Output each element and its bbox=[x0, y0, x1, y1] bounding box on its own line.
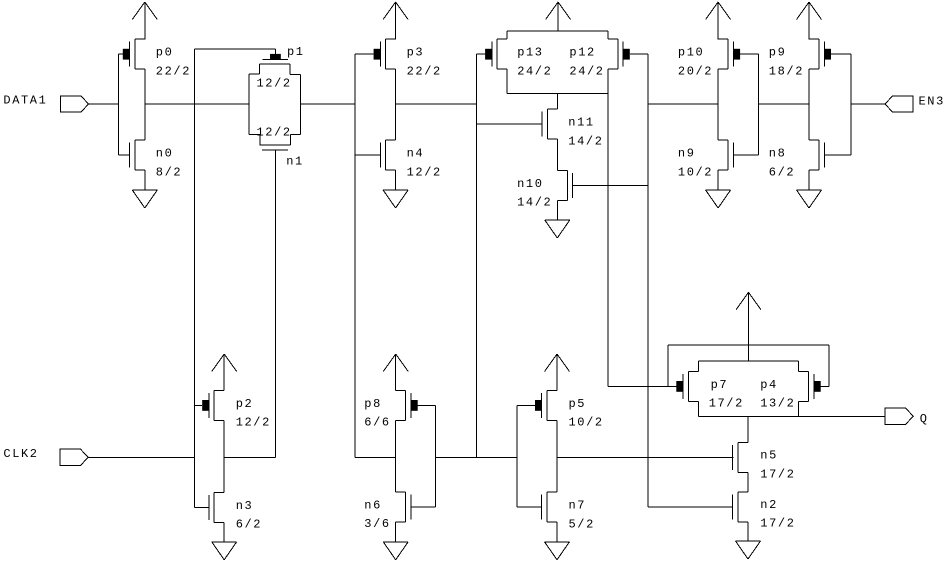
svg-text:p2: p2 bbox=[236, 397, 254, 411]
transistor p4 (PMOS 13/2, mirrored) bbox=[760, 371, 821, 410]
port EN3 (input) bbox=[885, 95, 945, 113]
svg-text:n3: n3 bbox=[236, 499, 254, 513]
svg-text:10/2: 10/2 bbox=[678, 165, 713, 179]
node enable bus vertical (p12/n10/n2 gates) bbox=[647, 54, 649, 507]
svg-text:p5: p5 bbox=[569, 397, 587, 411]
wire p4 gate lead to outer loop bbox=[821, 385, 829, 387]
svg-text:p12: p12 bbox=[569, 46, 595, 60]
svg-text:5/2: 5/2 bbox=[569, 517, 595, 531]
wire latch node row to p8/n6 output rail bbox=[355, 456, 396, 458]
wire p2 drain to n3 drain bbox=[223, 420, 225, 492]
transistor n10 (NMOS 14/2, mirrored) bbox=[517, 170, 573, 209]
node gate bus of p9/n8 bbox=[850, 54, 852, 155]
wire n7 source to ground bbox=[556, 522, 558, 542]
wire p10 drain to n9 drain bbox=[717, 69, 719, 140]
transistor p9 (PMOS 18/2, mirrored) bbox=[769, 39, 831, 78]
transistor n2 (NMOS 17/2) bbox=[733, 492, 796, 531]
svg-text:n8: n8 bbox=[769, 147, 787, 161]
power VDD arrow above p0 bbox=[132, 2, 157, 39]
ground below n10 bbox=[545, 220, 570, 238]
wire n11 source to n10 drain bbox=[556, 139, 558, 170]
power VDD arrow above p9 bbox=[797, 2, 822, 39]
transistor n0 (NMOS 8/2) bbox=[130, 140, 183, 179]
svg-text:24/2: 24/2 bbox=[569, 64, 604, 78]
wire p7/p4 common drain rail (bottom, node Q) bbox=[698, 416, 798, 418]
wire n5 source to n2 drain bbox=[747, 472, 749, 492]
transistor p7 (PMOS 17/2) bbox=[676, 371, 744, 410]
svg-text:p13: p13 bbox=[517, 46, 543, 60]
wire n1 gate bus down to clk-bar row bbox=[275, 150, 277, 457]
transistor p10 (PMOS 20/2, mirrored) bbox=[678, 39, 740, 78]
wire p0/n0 output to transmission gate left node bbox=[145, 103, 249, 105]
wire EN3 port to p9/n8 gate bus bbox=[851, 103, 885, 105]
transistor n5 (NMOS 17/2) bbox=[733, 442, 796, 481]
wire p5/n7 output to n5 gate bbox=[557, 456, 733, 458]
svg-text:12/2: 12/2 bbox=[257, 126, 292, 140]
svg-text:20/2: 20/2 bbox=[678, 64, 713, 78]
wire p13 stubs to rails bbox=[506, 31, 508, 94]
svg-text:p9: p9 bbox=[769, 46, 787, 60]
wire n4 gate lead bbox=[355, 154, 380, 156]
wire p10/n9 gate bus to p9/n8 output rail bbox=[758, 103, 809, 105]
wire n11 gate lead bbox=[477, 123, 542, 125]
svg-text:p4: p4 bbox=[760, 378, 778, 392]
svg-text:14/2: 14/2 bbox=[568, 134, 603, 148]
wire p1 gate lead (CLK bus to p1) bbox=[195, 48, 276, 50]
power VDD arrow above p13/p12 bbox=[546, 2, 571, 31]
power VDD arrow above p2 bbox=[212, 354, 237, 390]
transistor n3 (NMOS 6/2) bbox=[209, 492, 262, 531]
wire p9 drain to n8 drain bbox=[808, 69, 810, 140]
wire p2/n3 output (clk-bar) to n1 gate bus bbox=[224, 456, 276, 458]
wire p13/p12 common drain rail (bottom) bbox=[507, 93, 608, 95]
svg-text:17/2: 17/2 bbox=[760, 467, 795, 481]
svg-text:n11: n11 bbox=[568, 116, 594, 130]
wire p13/p12 common source rail (top) bbox=[507, 30, 608, 32]
node CLK bus vertical bbox=[194, 49, 196, 507]
wire p7 stubs to rails bbox=[697, 361, 699, 416]
ground below n9 bbox=[706, 190, 731, 208]
wire transmission gate output to p3/n4 gate bus bbox=[300, 103, 355, 105]
transistor p12 (PMOS 24/2) bbox=[569, 39, 629, 78]
wire n0 source to ground bbox=[144, 170, 146, 190]
svg-text:6/6: 6/6 bbox=[364, 416, 390, 430]
wire n3 gate lead bbox=[195, 506, 209, 508]
wire n2 source to ground bbox=[747, 522, 749, 541]
wire p8 drain to n6 drain bbox=[395, 420, 397, 492]
svg-text:12/2: 12/2 bbox=[257, 77, 292, 91]
transistor p13 (PMOS 24/2) bbox=[485, 39, 552, 78]
wire p13 gate lead bbox=[477, 53, 485, 55]
wire Q node to port Q bbox=[799, 416, 885, 418]
node transmission gate left rail bbox=[248, 74, 250, 134]
transistor n4 (NMOS 12/2) bbox=[380, 140, 442, 179]
ground below n6 bbox=[383, 542, 408, 560]
wire n10 source to ground bbox=[556, 200, 558, 220]
transistor p3 (PMOS 22/2) bbox=[374, 39, 442, 78]
power VDD arrow above p7/p4 bbox=[736, 292, 761, 361]
wire p12 gate lead to enable bus bbox=[630, 53, 648, 55]
transistor n9 (NMOS 10/2, mirrored) bbox=[678, 140, 734, 179]
svg-text:n2: n2 bbox=[760, 498, 778, 512]
svg-text:n1: n1 bbox=[286, 155, 304, 169]
wire n4 source to ground bbox=[395, 170, 397, 190]
svg-text:14/2: 14/2 bbox=[517, 196, 552, 210]
svg-text:n10: n10 bbox=[517, 177, 543, 191]
svg-text:3/6: 3/6 bbox=[364, 517, 390, 531]
wire p9 gate lead bbox=[831, 53, 851, 55]
svg-text:p0: p0 bbox=[156, 46, 174, 60]
svg-text:22/2: 22/2 bbox=[407, 64, 442, 78]
wire n9 gate lead bbox=[733, 154, 758, 156]
ground below n2 bbox=[736, 541, 761, 559]
wire p3 drain to n4 drain bbox=[395, 69, 397, 140]
svg-text:p1: p1 bbox=[287, 45, 305, 59]
svg-text:p3: p3 bbox=[407, 46, 425, 60]
svg-text:n4: n4 bbox=[407, 147, 425, 161]
node gate bus of p8/n6 bbox=[435, 405, 437, 507]
power VDD arrow above p8 bbox=[383, 354, 408, 390]
svg-text:8/2: 8/2 bbox=[156, 165, 182, 179]
wire p8/n6 gate bus row to p5/n7 gate bus bbox=[436, 456, 517, 458]
svg-text:p10: p10 bbox=[678, 46, 704, 60]
wire p12 bottom stub / output rail down to p7-p4 gates bbox=[607, 69, 609, 386]
transistor p1 (PMOS pass 12/2, horizontal) bbox=[249, 45, 305, 90]
wire p0 drain to n0 drain (output node) bbox=[144, 69, 146, 140]
port DATA1 (input) bbox=[3, 94, 88, 113]
ground below n0 bbox=[132, 190, 157, 208]
wire outer gate loop (p7-p4 gates tied) bbox=[668, 345, 829, 386]
wire p3/n4 output to p13/n11 gate bus bbox=[396, 103, 477, 105]
wire n3 source to ground bbox=[223, 522, 225, 541]
node transmission gate right rail bbox=[299, 74, 301, 134]
transistor n7 (NMOS 5/2) bbox=[542, 492, 595, 531]
wire p12 top stub to rail bbox=[607, 31, 609, 39]
transistor n11 (NMOS 14/2) bbox=[542, 109, 604, 148]
svg-text:n9: n9 bbox=[678, 147, 696, 161]
svg-text:10/2: 10/2 bbox=[569, 416, 604, 430]
wire DATA1 to inverter p0/n0 gate bus bbox=[89, 103, 119, 105]
wire n0 gate lead bbox=[118, 154, 129, 156]
svg-text:CLK2: CLK2 bbox=[3, 447, 38, 461]
svg-text:12/2: 12/2 bbox=[236, 416, 271, 430]
transistor p0 (PMOS 22/2) bbox=[123, 39, 191, 78]
wire p3 gate lead bbox=[355, 53, 373, 55]
svg-text:18/2: 18/2 bbox=[769, 64, 804, 78]
wire n10 gate lead to enable bus bbox=[573, 184, 648, 186]
svg-text:24/2: 24/2 bbox=[517, 64, 552, 78]
power VDD arrow above p3 bbox=[383, 2, 408, 39]
power VDD arrow above p10 bbox=[706, 2, 731, 39]
transistor n1 (NMOS pass 12/2, horizontal) bbox=[249, 126, 304, 169]
wire p5 drain to n7 drain bbox=[556, 420, 558, 492]
wire p5 gate lead bbox=[517, 404, 535, 406]
transistor p2 (PMOS 12/2) bbox=[202, 390, 271, 429]
wire p2 gate lead bbox=[195, 404, 203, 406]
wire n6 gate lead bbox=[411, 506, 436, 508]
wire drain of n11 from p13/p12 drain rail bbox=[556, 94, 558, 110]
wire n6 source to ground bbox=[395, 522, 397, 542]
ground below n7 bbox=[545, 542, 570, 560]
wire p0 gate lead bbox=[118, 53, 123, 55]
transistor p8 (PMOS 6/6, mirrored) bbox=[364, 390, 417, 429]
transistor n6 (NMOS 3/6, mirrored) bbox=[364, 492, 411, 531]
svg-text:EN3: EN3 bbox=[919, 95, 945, 109]
port CLK2 (input) bbox=[3, 447, 88, 466]
wire enable bus to p10/n9 output rail bbox=[648, 103, 718, 105]
wire CLK2 to clk bus bbox=[88, 456, 195, 458]
svg-text:DATA1: DATA1 bbox=[3, 94, 47, 108]
svg-text:Q: Q bbox=[920, 412, 929, 426]
svg-text:6/2: 6/2 bbox=[236, 518, 262, 532]
svg-text:6/2: 6/2 bbox=[769, 165, 795, 179]
wire p12 output rail to p7 gate bbox=[608, 385, 677, 387]
port Q (output) bbox=[885, 408, 929, 426]
node gate bus of p5/n7 bbox=[516, 405, 518, 507]
node gate bus of p0/n0 bbox=[117, 54, 119, 155]
svg-text:17/2: 17/2 bbox=[709, 397, 744, 411]
transistor n8 (NMOS 6/2, mirrored) bbox=[769, 140, 825, 179]
ground below n3 bbox=[212, 542, 237, 560]
svg-text:17/2: 17/2 bbox=[760, 517, 795, 531]
wire p4 stubs to rails bbox=[798, 361, 800, 416]
node gate bus of p10/n9 bbox=[757, 54, 759, 155]
svg-text:13/2: 13/2 bbox=[760, 397, 795, 411]
node gate bus p13/n11/p8/p5 vertical bbox=[476, 54, 478, 457]
svg-text:12/2: 12/2 bbox=[407, 165, 442, 179]
svg-text:p8: p8 bbox=[364, 397, 382, 411]
svg-text:22/2: 22/2 bbox=[156, 64, 191, 78]
power VDD arrow above p5 bbox=[545, 354, 570, 390]
svg-text:n7: n7 bbox=[569, 499, 587, 513]
wire Q rail down to n5 drain bbox=[747, 417, 749, 443]
wire p10 gate lead bbox=[740, 53, 758, 55]
node gate bus of p3/n4 (latch node, down to feedback row) bbox=[354, 54, 356, 457]
wire n7 gate lead bbox=[517, 506, 542, 508]
svg-text:n0: n0 bbox=[156, 147, 174, 161]
wire p7/p4 common source rail (top) bbox=[698, 360, 798, 362]
wire n8 gate lead bbox=[824, 154, 851, 156]
ground below n4 bbox=[383, 190, 408, 208]
svg-text:p7: p7 bbox=[711, 378, 729, 392]
transistor p5 (PMOS 10/2) bbox=[535, 390, 604, 429]
wire n2 gate lead from enable bus bbox=[648, 506, 733, 508]
wire n8 source to ground bbox=[808, 170, 810, 190]
svg-text:n5: n5 bbox=[760, 449, 778, 463]
wire n9 source to ground bbox=[717, 170, 719, 190]
wire p8 gate lead bbox=[418, 404, 436, 406]
ground below n8 bbox=[797, 190, 822, 208]
svg-text:n6: n6 bbox=[364, 499, 382, 513]
